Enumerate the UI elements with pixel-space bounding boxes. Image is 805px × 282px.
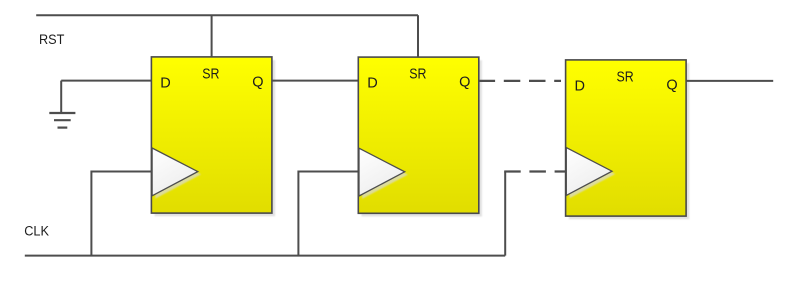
svg-text:SR: SR xyxy=(409,67,426,83)
U1 pin label Q xyxy=(252,74,263,90)
wire U3 Q output xyxy=(686,80,773,82)
wire ground to U1 D pin xyxy=(61,80,152,82)
U1 pin label D xyxy=(160,75,170,91)
wire CLK rail to U1 clock xyxy=(91,172,152,256)
svg-text:Q: Q xyxy=(252,74,263,90)
U1 pin label SR xyxy=(202,66,219,82)
U3 clock input triangle xyxy=(566,148,615,199)
wire RST top rail xyxy=(36,14,418,16)
flip-flop U3 body xyxy=(566,60,690,219)
wire RST rail to U2 SR pin xyxy=(417,15,419,58)
wire CLK to U3 clock (dashed continuation) xyxy=(504,170,566,172)
U2 pin label SR xyxy=(409,67,426,83)
svg-text:SR: SR xyxy=(202,66,219,82)
wire RST rail to U1 SR pin xyxy=(211,15,213,57)
ground xyxy=(49,81,75,128)
flip-flop U2 body xyxy=(358,57,482,216)
U3 pin label Q xyxy=(666,77,677,93)
U2 pin label Q xyxy=(459,75,470,91)
svg-text:Q: Q xyxy=(666,77,677,93)
net label RST xyxy=(39,31,65,47)
wire U1 Q to U2 D xyxy=(272,80,359,82)
U2 pin label D xyxy=(367,76,377,92)
U1 clock input triangle xyxy=(152,148,201,199)
net label CLK xyxy=(24,224,49,239)
svg-text:D: D xyxy=(367,76,377,92)
flip-flop U1 body xyxy=(151,57,275,216)
svg-text:Q: Q xyxy=(459,75,470,91)
U3 pin label D xyxy=(575,78,585,94)
svg-text:D: D xyxy=(575,78,585,94)
svg-text:CLK: CLK xyxy=(24,224,49,239)
U2 clock input triangle xyxy=(359,148,408,199)
svg-text:RST: RST xyxy=(39,31,65,47)
svg-text:SR: SR xyxy=(617,69,634,85)
U3 pin label SR xyxy=(617,69,634,85)
svg-text:D: D xyxy=(160,75,170,91)
wire CLK rail to U2 clock xyxy=(298,172,358,256)
wire U2 Q to U3 D (dashed continuation) xyxy=(479,80,561,82)
wire CLK bottom rail xyxy=(25,255,505,257)
wire CLK rail to U3 clock (riser) xyxy=(504,172,506,256)
